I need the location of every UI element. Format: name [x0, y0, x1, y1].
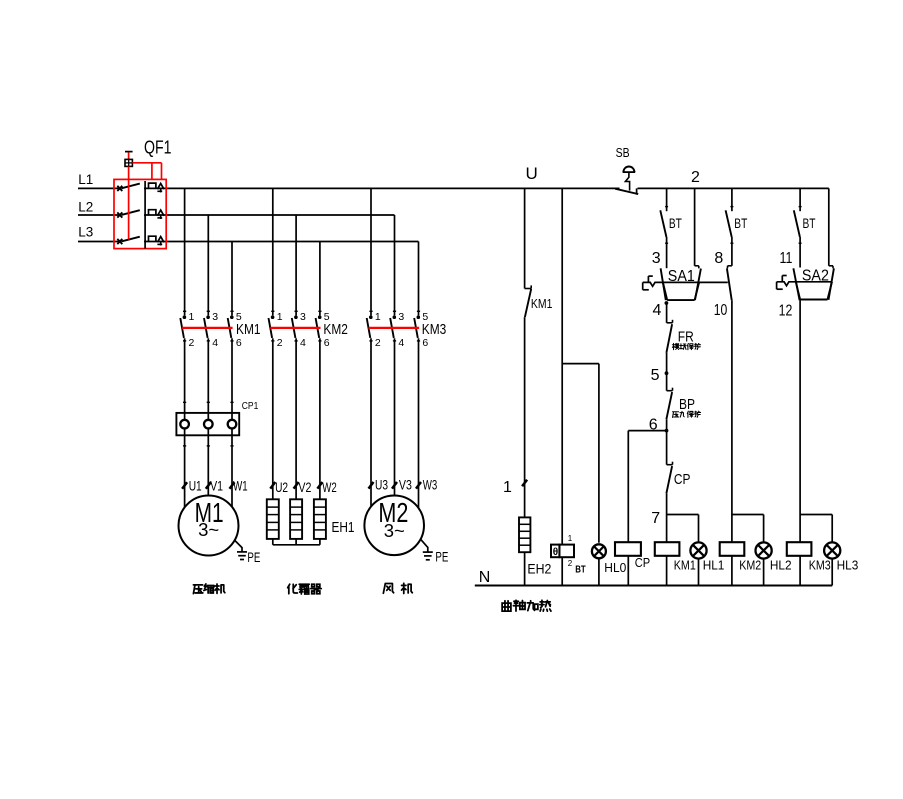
svg-text:3: 3: [300, 311, 306, 323]
svg-text:BT: BT: [734, 215, 747, 231]
svg-text:FR: FR: [678, 328, 694, 345]
svg-text:1: 1: [568, 534, 573, 543]
svg-text:BT: BT: [803, 215, 816, 231]
svg-text:11: 11: [780, 250, 793, 267]
svg-text:BT: BT: [669, 215, 682, 231]
svg-text:V2: V2: [298, 480, 311, 495]
svg-text:CP1: CP1: [242, 401, 259, 412]
svg-text:QF1: QF1: [144, 138, 172, 158]
svg-text:1: 1: [503, 479, 512, 496]
svg-text:HL1: HL1: [703, 558, 725, 573]
svg-text:SA2: SA2: [802, 268, 829, 285]
svg-text:KM1: KM1: [531, 296, 553, 311]
svg-text:EH1: EH1: [332, 520, 355, 536]
svg-text:12: 12: [779, 302, 793, 319]
svg-text:4: 4: [398, 337, 404, 349]
svg-text:KM3: KM3: [809, 558, 831, 573]
svg-text:SB: SB: [616, 145, 630, 160]
svg-text:KM3: KM3: [422, 321, 447, 338]
svg-text:KM2: KM2: [323, 321, 348, 338]
svg-text:6: 6: [324, 337, 330, 349]
svg-text:2: 2: [189, 337, 195, 349]
svg-text:2: 2: [277, 337, 283, 349]
svg-text:PE: PE: [247, 550, 260, 565]
svg-text:V1: V1: [210, 478, 223, 493]
svg-text:BT: BT: [575, 563, 586, 575]
svg-text:2: 2: [375, 337, 381, 349]
svg-text:U2: U2: [275, 480, 288, 495]
svg-text:7: 7: [651, 510, 660, 527]
svg-text:3: 3: [212, 311, 218, 323]
svg-text:CP: CP: [635, 555, 650, 570]
svg-text:BP: BP: [679, 396, 695, 413]
svg-text:PE: PE: [435, 549, 448, 564]
svg-text:1: 1: [189, 311, 195, 323]
svg-text:L2: L2: [78, 199, 93, 214]
svg-text:L3: L3: [78, 225, 93, 240]
svg-text:1: 1: [375, 311, 381, 323]
svg-text:V3: V3: [399, 478, 412, 493]
svg-text:3~: 3~: [384, 520, 405, 541]
svg-text:U3: U3: [375, 478, 388, 493]
svg-text:6: 6: [236, 337, 242, 349]
svg-text:EH2: EH2: [527, 561, 551, 577]
svg-text:L1: L1: [78, 172, 93, 187]
svg-text:HL0: HL0: [604, 560, 626, 575]
svg-text:HL2: HL2: [770, 558, 792, 573]
svg-text:2: 2: [691, 169, 700, 186]
svg-text:3: 3: [398, 311, 404, 323]
svg-text:2: 2: [568, 559, 573, 568]
svg-text:CP: CP: [674, 471, 691, 488]
svg-text:SA1: SA1: [668, 268, 695, 285]
svg-text:θ: θ: [553, 547, 558, 558]
svg-text:4: 4: [212, 337, 218, 349]
svg-text:HL3: HL3: [837, 558, 859, 573]
svg-text:W3: W3: [423, 478, 438, 493]
svg-text:8: 8: [714, 250, 723, 267]
svg-text:5: 5: [651, 367, 660, 384]
svg-text:10: 10: [714, 302, 728, 319]
svg-text:KM2: KM2: [739, 558, 761, 573]
svg-text:4: 4: [300, 337, 306, 349]
svg-text:W1: W1: [233, 478, 248, 493]
svg-text:1: 1: [277, 311, 283, 323]
svg-text:KM1: KM1: [674, 558, 696, 573]
svg-text:3~: 3~: [198, 519, 219, 540]
svg-text:U1: U1: [189, 478, 202, 493]
svg-text:6: 6: [422, 337, 428, 349]
svg-text:W2: W2: [322, 480, 337, 495]
svg-text:KM1: KM1: [236, 321, 261, 338]
svg-text:4: 4: [653, 302, 662, 319]
svg-text:U: U: [526, 164, 538, 183]
svg-text:N: N: [479, 569, 491, 586]
svg-text:3: 3: [652, 250, 661, 267]
